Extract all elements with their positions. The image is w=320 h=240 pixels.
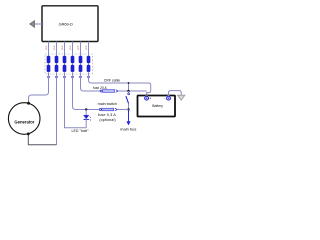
fuse F2 0,3A body (102, 108, 114, 111)
svg-text:ye1: ye1 (44, 45, 48, 50)
generator G1 circle (8, 103, 40, 135)
wire R5-LED5 (80, 63, 82, 65)
LED D5 body (79, 65, 82, 72)
fuse F1 20A: left circle (100, 90, 102, 92)
LED D6 arrow (87, 76, 90, 78)
main switch S1 contact (128, 93, 130, 95)
battery - terminal (166, 95, 172, 101)
wire battery minus to ground (169, 91, 182, 97)
svg-text:ye6: ye6 (84, 45, 88, 50)
LED D2 arrow (55, 76, 58, 78)
fuse F2 0,3A arrow (115, 108, 117, 111)
wire generator bottom horizontal (28, 135, 56, 145)
pin wire 1 (48, 42, 50, 57)
resistor R5 (79, 56, 82, 63)
fuse F2 0,3A: left circle (99, 109, 101, 111)
arrow (left connector) (30, 21, 35, 27)
wire R3-LED3 (64, 63, 66, 65)
wire junction to LED anode (85, 110, 87, 116)
main bus arrow (128, 110, 130, 122)
junction dot node A (127, 90, 129, 92)
wire column5 to fuse 20A line (81, 72, 101, 91)
wire LED cathode down (85, 119, 87, 127)
wire node A to switch (128, 91, 130, 93)
resistor R3 (63, 56, 66, 63)
fuse F1 20A body (103, 90, 115, 93)
svg-text:Battery: Battery (152, 104, 163, 108)
main switch S1 blade (126, 96, 129, 103)
svg-text:(optional): (optional) (99, 118, 115, 122)
wire column3 to LED return (65, 72, 87, 127)
svg-text:ye4: ye4 (68, 45, 72, 50)
svg-text:+: + (149, 97, 151, 101)
wire column4 to fuse 0,3A line (73, 72, 100, 109)
pin wire 3 (64, 42, 66, 57)
svg-text:main switch: main switch (98, 102, 117, 106)
svg-text:ye5: ye5 (76, 45, 80, 50)
svg-text:main bus: main bus (120, 126, 136, 131)
pin wire 4 (72, 42, 74, 57)
junction dot CRF bridge (128, 82, 130, 84)
LED D1 arrow (47, 76, 50, 78)
LED D4 arrow (71, 76, 74, 78)
svg-text:GR6b-D: GR6b-D (59, 22, 73, 27)
wire R1-LED1 (48, 63, 50, 65)
dashed group box around resistor/LED bank (45, 54, 93, 74)
wire bridge CRF to fuse20A node (128, 83, 130, 91)
svg-text:ye3: ye3 (60, 45, 64, 50)
wire R4-LED4 (72, 63, 74, 65)
resistor R2 (55, 56, 58, 63)
fuse F1 20A arrow (116, 90, 118, 93)
svg-text:LED "batt": LED "batt" (71, 129, 89, 133)
regulator box GR6b-D (42, 6, 98, 42)
svg-text:-: - (164, 97, 165, 101)
pin wire 2 (56, 42, 58, 57)
LED D1 body (47, 65, 50, 72)
LED D7 indicator (84, 115, 91, 120)
pin wire 6 (88, 42, 90, 57)
battery B1 box (138, 96, 176, 117)
svg-text:ye2: ye2 (52, 45, 56, 50)
generator top terminal (27, 102, 30, 105)
resistor R4 (71, 56, 74, 63)
svg-text:fuse 20 A: fuse 20 A (93, 86, 108, 90)
svg-text:fuse 0,3 A: fuse 0,3 A (98, 113, 116, 117)
battery + terminal (144, 95, 150, 101)
LED D4 body (71, 65, 74, 72)
LED D3 body (63, 65, 66, 72)
pin wire 5 (80, 42, 82, 57)
wire R6-LED6 (88, 63, 90, 65)
generator bottom terminal (27, 133, 30, 136)
wire fuse20A to junction (118, 90, 147, 92)
junction dot main bus node (127, 108, 129, 110)
wire column6 to CRF cable (89, 72, 151, 96)
junction dot LED branch (85, 108, 87, 110)
LED D5 arrow (79, 76, 82, 78)
resistor R1 (47, 56, 50, 63)
wire switch to main bus junction (128, 103, 130, 109)
wire to left arrow (35, 23, 43, 25)
svg-text:CRF cable: CRF cable (104, 78, 121, 82)
svg-text:Generator: Generator (14, 119, 34, 124)
LED D2 body (55, 65, 58, 72)
resistor R6 (87, 56, 90, 63)
ground arrow (178, 95, 185, 100)
wire column2 to generator bottom riser (56, 72, 58, 145)
wire R2-LED2 (56, 63, 58, 65)
LED D6 body (87, 65, 90, 72)
wire fuse 0,3A to main bus junction (117, 109, 128, 111)
wire column1 to generator top (29, 72, 49, 103)
LED D3 arrow (63, 76, 66, 78)
